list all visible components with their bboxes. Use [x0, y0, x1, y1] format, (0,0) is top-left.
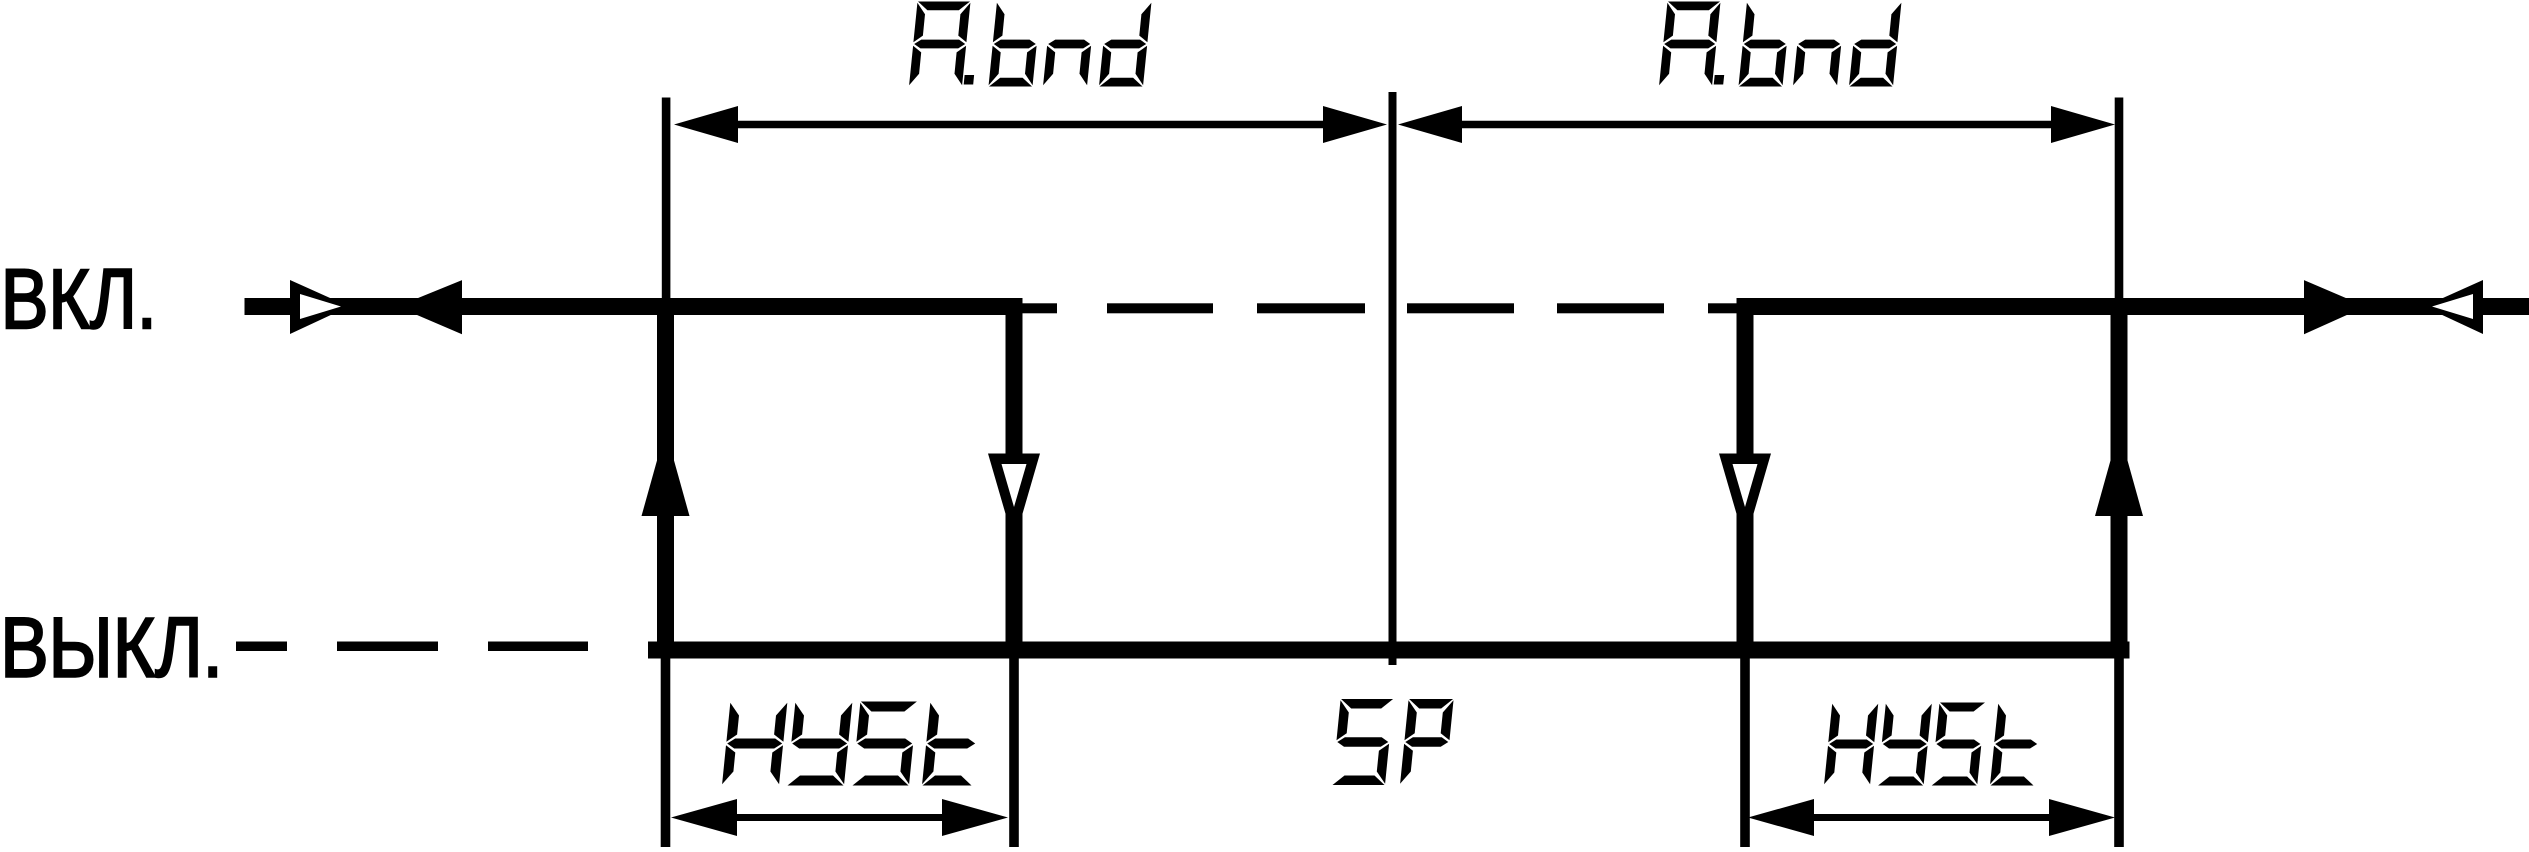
wire hysteresis loop left vertical (thick, x=665) [657, 298, 674, 659]
wire hysteresis loop right vertical (thick, x=2119) [2111, 298, 2128, 659]
svg-text:ВКЛ.: ВКЛ. [1, 252, 157, 346]
node extension below OFF (x=1745) [1740, 659, 1750, 848]
filled arrowhead pointing left on ON line [397, 280, 462, 334]
open down arrow on right loop (turn-off transition) [1719, 454, 1771, 544]
value label A.bnd (right, 7-segment) [1659, 2, 1901, 87]
wire ON level line, left solid segment [245, 298, 1023, 315]
wire hysteresis loop right-inner vertical (thick, x=1745) [1737, 298, 1754, 659]
node SP setpoint axis line (x=1392.5) [1389, 92, 1397, 665]
wire hysteresis loop left-inner vertical (thick, x=1014) [1006, 298, 1023, 659]
node threshold-right extension line (x=2119) top [2115, 98, 2124, 299]
dimension arrow A.bnd (right), double-headed [1452, 121, 2061, 129]
svg-text:ВЫКЛ.: ВЫКЛ. [0, 601, 223, 695]
wire ON level line, right solid segment [1737, 298, 2529, 315]
dimension arrow HYSt (left), double-headed [727, 814, 952, 821]
wire ON level dashed segment between loops [1022, 303, 1057, 313]
open down arrow on left loop (turn-off transition) [988, 454, 1040, 544]
value label HYSt (left, 7-segment) [722, 702, 975, 786]
filled arrowhead pointing right on ON line (right) [2304, 280, 2366, 334]
filled up arrow on left loop (turn-on transition) [642, 430, 690, 516]
value label HYSt (right, 7-segment) [1824, 703, 2037, 786]
dimension arrow HYSt (right), double-headed [1804, 814, 2059, 821]
open arrowhead pointing left on ON line (right) [2424, 280, 2483, 334]
node threshold-left extension below OFF [661, 659, 671, 848]
node threshold-left extension line (x=665) top [662, 98, 671, 299]
filled up arrow on right loop (turn-on transition) [2095, 430, 2143, 516]
wire OFF level line, solid segment [648, 642, 2130, 659]
value label SP (setpoint, 7-segment) [1333, 699, 1454, 785]
dimension arrow A.bnd (left), double-headed [728, 121, 1333, 129]
value label A.bnd (left, 7-segment) [909, 2, 1151, 87]
open arrowhead pointing right on ON line [290, 280, 349, 334]
node threshold-right extension below OFF [2114, 659, 2124, 848]
node extension below OFF (x=1014) [1009, 659, 1019, 848]
wire OFF level dashed segment at left [236, 642, 287, 652]
